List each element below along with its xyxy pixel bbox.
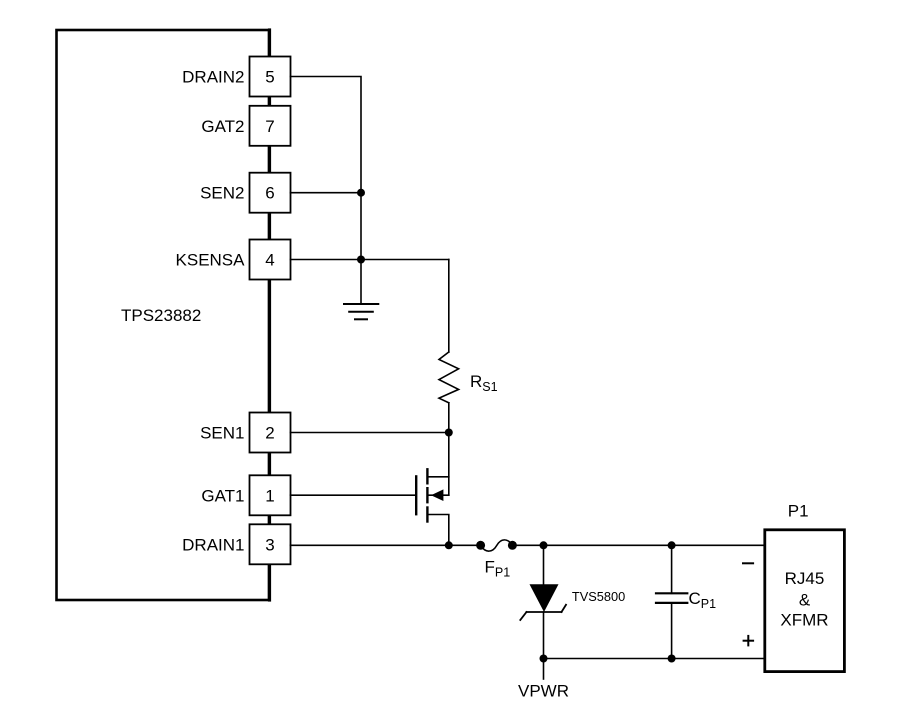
wire VPWR row to port P1 plus (544, 658, 765, 660)
pin stub segment pin 5 to pin 7 (268, 97, 271, 106)
svg-text:CP1: CP1 (689, 589, 717, 611)
pin 3 DRAIN1 box (250, 524, 291, 564)
wire KSENSA corner down to resistor (448, 260, 450, 353)
wire TVS stem upper (543, 545, 545, 584)
svg-text:TPS23882: TPS23882 (121, 306, 201, 325)
junction SEN2/ground bus (357, 189, 365, 197)
wire resistor bottom to SEN1 junction (448, 403, 450, 433)
svg-text:RJ45: RJ45 (785, 569, 825, 588)
FET body diode arrow (431, 489, 443, 501)
svg-text:RS1: RS1 (470, 372, 498, 394)
transistor Q1 MOSFET (416, 433, 449, 546)
svg-text:XFMR: XFMR (780, 611, 828, 630)
port P1 box RJ45 XFMR (765, 530, 845, 672)
svg-text:&: & (799, 590, 811, 609)
FET gate bar (415, 476, 417, 514)
FET body stub (428, 494, 449, 496)
junction SEN1/RS1/FET source (445, 429, 453, 437)
svg-text:SEN2: SEN2 (200, 184, 244, 203)
wire TVS stem lower (543, 612, 545, 659)
junction KSENSA/ground bus (357, 256, 365, 264)
junction VPWR (540, 655, 548, 663)
pin stub segment top edge to pin 5 (268, 30, 271, 57)
wire SEN1 pin 2 to junction (291, 432, 449, 434)
wire ground stem (360, 260, 362, 305)
label minus terminal (743, 562, 753, 564)
junction FET drain/DRAIN1 (445, 541, 453, 549)
svg-text:DRAIN2: DRAIN2 (182, 68, 244, 87)
svg-text:VPWR: VPWR (518, 681, 569, 700)
wire fuse to port P1 minus (512, 544, 764, 546)
junction cap bottom (668, 655, 676, 663)
svg-text:7: 7 (265, 117, 274, 136)
wire SEN2 pin 6 to ground bus (291, 192, 362, 194)
fuse FP1 (476, 540, 517, 551)
pin 6 SEN2 box (250, 173, 291, 213)
svg-text:3: 3 (265, 535, 274, 554)
pin 7 GAT2 box (250, 106, 291, 146)
wire KSENSA pin 4 to resistor top corner (291, 259, 449, 261)
svg-text:P1: P1 (788, 502, 809, 521)
junction TVS branch (540, 541, 548, 549)
pin stub segment pin 3 to bottom edge (268, 564, 271, 600)
svg-text:FP1: FP1 (485, 558, 511, 580)
svg-text:DRAIN1: DRAIN1 (182, 535, 244, 554)
svg-text:5: 5 (265, 68, 274, 87)
pin stub segment pin 1 to pin 3 (268, 515, 271, 524)
svg-text:6: 6 (265, 184, 274, 203)
label plus terminal (744, 636, 754, 646)
capacitor CP1 (656, 545, 687, 658)
resistor RS1 (439, 352, 459, 403)
svg-text:TVS5800: TVS5800 (572, 589, 625, 604)
wire VPWR stub (543, 659, 545, 680)
pin stub segment pin 2 to pin 1 (268, 453, 271, 476)
svg-text:2: 2 (265, 424, 274, 443)
wire DRAIN2 pin 5 to ground bus (291, 77, 362, 193)
pin stub segment pin 6 to pin 4 (268, 213, 271, 240)
svg-text:KSENSA: KSENSA (176, 251, 246, 270)
svg-text:1: 1 (265, 486, 274, 505)
pin 2 SEN1 box (250, 413, 291, 453)
wire DRAIN1 pin 3 to fuse (291, 544, 481, 546)
FET channel dashed (426, 469, 428, 521)
wire FET source vertical (448, 433, 450, 496)
pin 1 GAT1 box (250, 475, 291, 515)
wire ground bus vertical (360, 193, 362, 260)
svg-text:SEN1: SEN1 (200, 424, 244, 443)
pin stub segment pin 7 to pin 6 (268, 146, 271, 173)
svg-text:4: 4 (265, 251, 274, 270)
pin stub segment pin 4 to pin 2 (268, 280, 271, 413)
FET source stub (428, 476, 449, 478)
pin 4 KSENSA box (250, 240, 291, 280)
diode D1 TVS5800 (520, 584, 566, 620)
IC U1 TPS23882 body (57, 30, 270, 600)
pin 5 DRAIN2 box (250, 57, 291, 97)
wire GAT1 pin 1 to gate (291, 494, 417, 496)
ground symbol (344, 304, 378, 319)
svg-text:GAT1: GAT1 (201, 486, 244, 505)
junction cap top (668, 541, 676, 549)
label RJ45 & XFMR (780, 569, 828, 630)
svg-text:GAT2: GAT2 (201, 117, 244, 136)
FET drain stub (428, 515, 449, 546)
